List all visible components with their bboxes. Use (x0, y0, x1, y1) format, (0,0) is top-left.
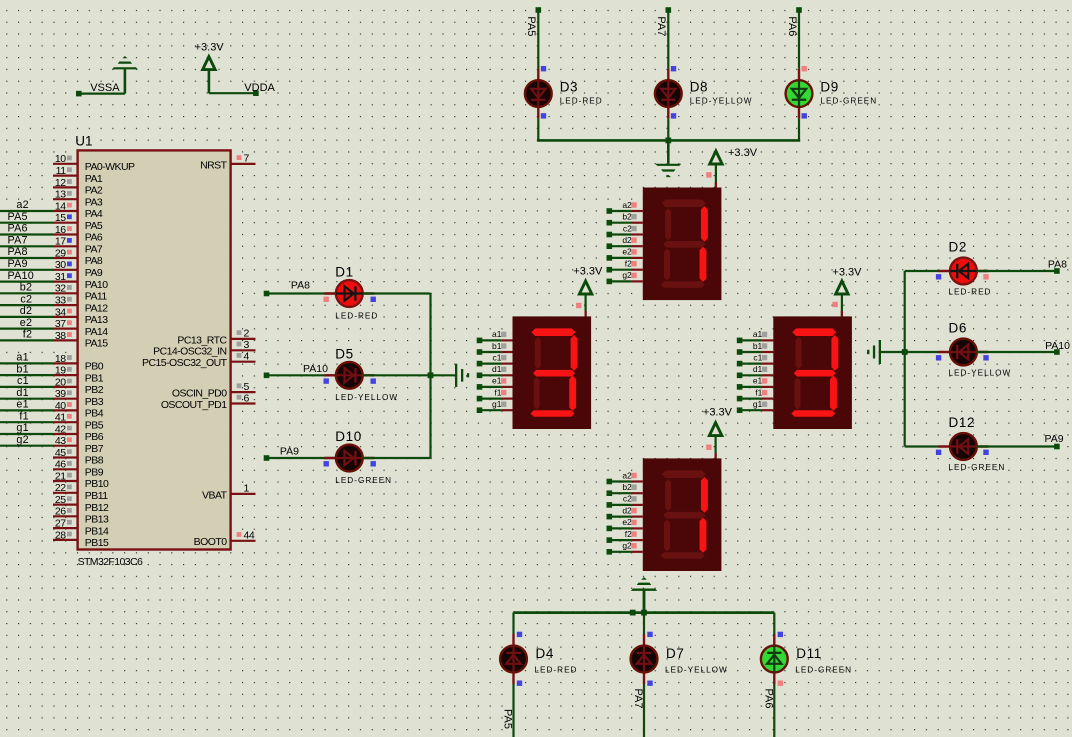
U1 pin 2 (PC13_RTC) (177, 328, 255, 347)
svg-text:D10: D10 (335, 429, 362, 444)
svg-text:26: 26 (55, 506, 66, 518)
ground symbol (right LED column) (867, 340, 881, 364)
svg-text:PB10: PB10 (85, 478, 109, 490)
U1 pin 34 (PA13) (53, 306, 108, 326)
svg-text:18: 18 (55, 353, 66, 365)
wire net PA10 to D5 (267, 363, 337, 375)
7-seg pin d2 wire and terminal (607, 235, 643, 249)
svg-text:45: 45 (55, 447, 66, 459)
svg-text:D5: D5 (335, 346, 353, 361)
svg-text:e1: e1 (753, 376, 763, 386)
svg-text:PC13_RTC: PC13_RTC (177, 334, 227, 346)
ground symbol (bottom display) (631, 577, 657, 612)
svg-text:PA4: PA4 (85, 208, 103, 220)
wire net a2 to U1 pin 14 (0, 199, 53, 211)
U1 pin 37 (PA14) (53, 318, 108, 338)
U1 pin 27 (PB14) (53, 518, 109, 538)
svg-text:LED-GREEN: LED-GREEN (335, 476, 392, 485)
wire net f2 to U1 pin 38 (0, 329, 53, 341)
7-seg pin a1 wire and terminal (477, 329, 513, 343)
svg-text:PA10: PA10 (8, 270, 34, 282)
7-seg pin f1 wire and terminal (737, 387, 774, 401)
svg-text:LED-YELLOW: LED-YELLOW (949, 368, 1012, 377)
svg-text:13: 13 (55, 189, 66, 201)
svg-text:PA5: PA5 (8, 211, 28, 223)
7-seg pin f1 wire and terminal (477, 387, 513, 401)
svg-text:39: 39 (55, 388, 66, 400)
svg-text:PA7: PA7 (655, 16, 667, 36)
svg-text:17: 17 (55, 236, 66, 248)
svg-text:PA2: PA2 (85, 185, 103, 197)
7-seg pin a2 wire and terminal (607, 470, 643, 484)
svg-text:a2: a2 (622, 470, 632, 480)
wire D12 anode to terminal PA9 (977, 433, 1064, 447)
IC U1 STM32F103C6 (75, 133, 230, 567)
svg-text:40: 40 (55, 400, 66, 412)
wire D6 anode to terminal PA10 (977, 340, 1071, 352)
U1 pin 46 (PB9) (53, 459, 104, 479)
svg-text:D4: D4 (536, 646, 554, 661)
svg-text:25: 25 (55, 494, 66, 506)
7-seg pin a1 wire and terminal (737, 329, 774, 343)
svg-text:PA0-WKUP: PA0-WKUP (85, 161, 135, 173)
svg-text:32: 32 (55, 283, 66, 295)
wire D8 cathode to bus (667, 119, 669, 141)
svg-text:PB14: PB14 (85, 525, 109, 537)
svg-text:NRST: NRST (200, 159, 228, 171)
wire net e1 to U1 pin 40 (0, 399, 53, 411)
wire VSSA terminal to ground (79, 92, 125, 94)
U1 pin 21 (PB10) (53, 470, 109, 490)
svg-text:PA9: PA9 (280, 446, 299, 458)
U1 pin 22 (PB11) (53, 482, 108, 502)
LED D1 LED-RED (lit) (324, 265, 379, 321)
svg-text:PA8: PA8 (85, 255, 103, 267)
svg-text:10: 10 (55, 153, 66, 165)
U1 pin 6 (OSCOUT_PD1) (161, 392, 256, 411)
U1 pin 30 (PA9) (53, 259, 103, 279)
LED D9 LED-GREEN (786, 66, 878, 119)
U1 pin 38 (PA15) (53, 330, 108, 350)
svg-text:37: 37 (55, 318, 66, 330)
U1 pin 13 (PA3) (53, 189, 103, 209)
svg-text:LED-RED: LED-RED (535, 665, 578, 674)
7-seg pin g1 wire and terminal (477, 399, 513, 413)
svg-text:g2: g2 (622, 541, 632, 551)
svg-text:c2: c2 (20, 293, 32, 305)
svg-text:+3.3V: +3.3V (573, 266, 603, 278)
svg-text:PA1: PA1 (85, 173, 103, 185)
LED D12 LED-GREEN (936, 415, 1005, 472)
svg-text:PA10: PA10 (85, 279, 108, 291)
U1 pin 33 (PA12) (53, 295, 108, 315)
svg-text:g2: g2 (622, 270, 632, 280)
svg-text:44: 44 (244, 530, 255, 542)
7-seg pin b1 wire and terminal (477, 341, 513, 355)
LED D11 LED-GREEN (761, 632, 852, 686)
svg-text:b2: b2 (622, 482, 632, 492)
wire D10 cathode to bus (363, 457, 431, 459)
U1 pin 12 (PA2) (53, 177, 103, 197)
svg-text:c2: c2 (623, 223, 632, 233)
terminal VDDA (244, 82, 275, 96)
svg-text:PB0: PB0 (85, 361, 104, 373)
U1 pin 5 (OSCIN_PD0) (172, 381, 256, 400)
svg-text:OSCOUT_PD1: OSCOUT_PD1 (161, 399, 227, 411)
wire bus to D12 (905, 445, 939, 447)
wire net e2 to U1 pin 37 (0, 317, 53, 329)
7-seg pin a2 wire and terminal (607, 200, 643, 214)
svg-text:7: 7 (244, 153, 250, 165)
7-seg pin b2 wire and terminal (607, 212, 643, 226)
7-seg display (mid-left, digit 3) (513, 316, 592, 429)
wire D5 cathode to junction (363, 374, 431, 376)
U1 pin 26 (PB13) (53, 506, 109, 526)
U1 pin 7 (NRST) (200, 153, 255, 172)
svg-text:22: 22 (55, 482, 66, 494)
svg-text:VSSA: VSSA (90, 82, 120, 94)
svg-text:15: 15 (55, 212, 66, 224)
svg-text:PB5: PB5 (85, 419, 104, 431)
svg-text:PA14: PA14 (85, 326, 108, 338)
wire net PA6 to D9 (786, 10, 799, 69)
svg-text:PB8: PB8 (85, 455, 104, 467)
7-seg pin f2 wire and terminal (607, 529, 643, 543)
svg-text:34: 34 (55, 306, 66, 318)
svg-text:b1: b1 (753, 341, 763, 351)
svg-text:+3.3V: +3.3V (832, 266, 862, 278)
ground symbol VSSA net (112, 56, 138, 94)
wire D7 to net PA7 (bottom edge) (632, 684, 644, 737)
svg-text:d1: d1 (492, 364, 502, 374)
svg-text:31: 31 (55, 271, 66, 283)
svg-text:LED-YELLOW: LED-YELLOW (690, 96, 753, 105)
7-seg display (top, digit 1) (643, 188, 722, 301)
wire bus to D2 (905, 270, 939, 272)
svg-text:e2: e2 (622, 517, 632, 527)
svg-text:LED-RED: LED-RED (949, 287, 992, 296)
svg-text:LED-GREEN: LED-GREEN (820, 96, 877, 105)
svg-text:PA9: PA9 (1045, 433, 1064, 445)
7-seg pin c2 wire and terminal (607, 223, 643, 237)
wire net PA9 to D10 (267, 446, 337, 458)
svg-text:PA6: PA6 (786, 16, 798, 36)
junction bottom bus at ground (641, 610, 647, 616)
wire net a1 to U1 pin 18 (0, 352, 53, 364)
7-seg pin g1 wire and terminal (737, 399, 774, 413)
svg-text:LED-GREEN: LED-GREEN (949, 463, 1006, 472)
wire net PA7 to U1 pin 17 (0, 235, 53, 247)
svg-text:2: 2 (244, 328, 250, 340)
7-seg display (mid-right, digit 3) (773, 316, 852, 429)
svg-text:PB1: PB1 (85, 372, 104, 384)
svg-text:c1: c1 (493, 352, 502, 362)
U1 pin 31 (PA10) (53, 271, 108, 291)
svg-text:e1: e1 (492, 376, 502, 386)
wire +3.3V to top display common (706, 164, 716, 188)
svg-text:g1: g1 (753, 399, 763, 409)
terminal PA5 (top) (536, 7, 542, 13)
U1 pin 3 (PC14-OSC32_IN) (153, 339, 255, 358)
svg-text:D2: D2 (949, 240, 967, 255)
power symbol +3.3V VDDA (195, 41, 225, 93)
wire net c2 to U1 pin 33 (0, 293, 53, 305)
svg-text:D11: D11 (796, 646, 822, 661)
U1 pin 1 (VBAT) (202, 483, 255, 502)
U1 pin 45 (PB8) (53, 447, 104, 467)
svg-text:a2: a2 (16, 199, 28, 211)
svg-text:VDDA: VDDA (244, 82, 275, 94)
LED D10 LED-GREEN (off) (324, 429, 393, 485)
7-seg pin g2 wire and terminal (607, 270, 643, 284)
svg-text:OSCIN_PD0: OSCIN_PD0 (172, 388, 227, 400)
svg-text:1: 1 (244, 483, 250, 495)
svg-text:PA8: PA8 (8, 246, 28, 258)
svg-text:6: 6 (244, 392, 250, 404)
U1 pin 14 (PA4) (53, 200, 103, 220)
svg-text:D6: D6 (949, 321, 967, 336)
LED D4 LED-RED (500, 632, 577, 686)
wire net PA9 to U1 pin 30 (0, 258, 53, 270)
wire D3 cathode to bus (537, 119, 539, 141)
cathode bus (top LED row) (537, 139, 800, 142)
wire +3.3V to mid-left display common (576, 294, 586, 316)
wire net d2 to U1 pin 34 (0, 305, 53, 317)
svg-text:41: 41 (55, 412, 66, 424)
svg-text:b1: b1 (492, 341, 502, 351)
junction left LED bus (428, 372, 434, 378)
svg-text:b1: b1 (16, 363, 28, 375)
svg-text:g2: g2 (16, 434, 28, 446)
svg-text:STM32F103C6: STM32F103C6 (78, 556, 143, 568)
svg-text:D12: D12 (949, 415, 976, 430)
ground symbol (bottom LED row) (631, 577, 657, 612)
wire net PA10 to U1 pin 31 (0, 270, 53, 282)
svg-text:e2: e2 (20, 317, 32, 329)
U1 pin 42 (PB6) (53, 423, 104, 443)
svg-text:PB4: PB4 (85, 408, 104, 420)
7-seg pin e2 wire and terminal (607, 247, 643, 261)
svg-text:b2: b2 (622, 212, 632, 222)
7-seg pin e1 wire and terminal (477, 376, 513, 390)
svg-text:PA7: PA7 (632, 689, 644, 709)
U1 pin 18 (PB0) (53, 353, 104, 373)
U1 pin 11 (PA1) (53, 165, 103, 185)
svg-text:PC15-OSC32_OUT: PC15-OSC32_OUT (142, 357, 228, 369)
junction top LED bus (665, 138, 671, 144)
wire ground to junction (right) (881, 351, 905, 353)
svg-text:LED-RED: LED-RED (335, 311, 378, 320)
svg-text:21: 21 (55, 470, 66, 482)
terminal PA8 (D1 anode) (264, 291, 270, 297)
svg-text:D8: D8 (690, 79, 708, 94)
wire net g2 to U1 pin 43 (0, 434, 53, 446)
U1 pin 15 (PA5) (53, 212, 103, 232)
svg-text:PA15: PA15 (85, 338, 108, 350)
wire net PA5 to D3 (525, 10, 538, 69)
svg-text:PA12: PA12 (85, 302, 108, 314)
svg-text:PB15: PB15 (85, 537, 109, 549)
U1 pin 28 (PB15) (53, 529, 109, 549)
U1 pin 17 (PA7) (53, 236, 103, 256)
svg-text:d2: d2 (622, 505, 632, 515)
svg-text:PB11: PB11 (85, 490, 108, 502)
svg-text:5: 5 (244, 381, 250, 393)
svg-text:PA6: PA6 (763, 689, 775, 709)
svg-text:PC14-OSC32_IN: PC14-OSC32_IN (153, 346, 226, 358)
7-seg pin e2 wire and terminal (607, 517, 643, 531)
7-seg pin d1 wire and terminal (477, 364, 513, 378)
7-seg pin b2 wire and terminal (607, 482, 643, 496)
power symbol +3.3V (top display) (710, 147, 758, 164)
svg-text:20: 20 (55, 376, 66, 388)
wire net PA5 to U1 pin 15 (0, 211, 53, 223)
LED D7 LED-YELLOW (631, 632, 728, 686)
wire D1 cathode to bus (363, 292, 431, 294)
svg-text:e2: e2 (622, 247, 632, 257)
terminal PA7 (top) (666, 7, 672, 13)
7-seg pin c1 wire and terminal (477, 352, 513, 366)
wire net PA8 to D1 (267, 279, 337, 293)
svg-text:12: 12 (55, 177, 66, 189)
svg-text:PA5: PA5 (525, 16, 537, 36)
svg-text:LED-GREEN: LED-GREEN (795, 665, 852, 674)
svg-text:D1: D1 (335, 265, 353, 280)
svg-text:D7: D7 (666, 646, 684, 661)
LED D3 LED-RED (525, 66, 603, 119)
7-seg display (bottom, digit 1) (643, 458, 722, 571)
terminal PA10 (D5 anode) (264, 373, 270, 379)
svg-text:U1: U1 (75, 133, 92, 148)
wire net f1 to U1 pin 41 (0, 410, 53, 422)
wire VDDA terminal to power (209, 92, 256, 94)
wire bus to D4 (512, 613, 514, 634)
svg-text:PA3: PA3 (85, 196, 103, 208)
svg-text:+3.3V: +3.3V (728, 147, 758, 159)
7-seg pin b1 wire and terminal (737, 341, 774, 355)
wire net g1 to U1 pin 42 (0, 422, 53, 434)
wire bus to D11 (773, 613, 775, 634)
svg-text:PA6: PA6 (8, 223, 28, 235)
7-seg pin f2 wire and terminal (607, 259, 643, 273)
svg-text:+3.3V: +3.3V (195, 41, 225, 53)
7-seg pin e1 wire and terminal (737, 376, 774, 390)
svg-text:c1: c1 (753, 352, 762, 362)
svg-text:PA8: PA8 (291, 279, 310, 291)
wire D2 anode to terminal PA8 (977, 258, 1068, 271)
svg-text:f1: f1 (19, 410, 28, 422)
svg-text:PB13: PB13 (85, 514, 109, 526)
wire net PA8 to U1 pin 29 (0, 246, 53, 258)
ground symbol (top LED row) (655, 140, 681, 177)
wire D9 cathode to bus (798, 119, 800, 141)
svg-text:c2: c2 (623, 494, 632, 504)
LED D6 LED-YELLOW (936, 321, 1011, 378)
svg-text:19: 19 (55, 365, 66, 377)
svg-text:42: 42 (55, 423, 66, 435)
wire net b2 to U1 pin 32 (0, 282, 53, 294)
junction bottom bus (stub) (630, 610, 636, 616)
terminal PA9 (right) (1054, 444, 1060, 450)
svg-text:LED-YELLOW: LED-YELLOW (335, 393, 398, 402)
svg-text:BOOT0: BOOT0 (194, 536, 228, 548)
svg-text:f1: f1 (494, 387, 501, 397)
U1 pin 39 (PB3) (53, 388, 104, 408)
svg-text:PB6: PB6 (85, 431, 104, 443)
svg-text:30: 30 (55, 259, 66, 271)
svg-text:PA5: PA5 (85, 220, 103, 232)
svg-text:c1: c1 (17, 375, 29, 387)
svg-text:PA5: PA5 (502, 709, 514, 729)
svg-text:a1: a1 (16, 352, 28, 364)
svg-text:a1: a1 (492, 329, 502, 339)
svg-text:f2: f2 (23, 329, 32, 341)
terminal PA9 (D10 anode) (264, 455, 270, 461)
svg-text:14: 14 (55, 200, 66, 212)
wire +3.3V to bottom display common (706, 436, 715, 459)
7-seg pin d1 wire and terminal (737, 364, 774, 378)
svg-text:PB3: PB3 (85, 396, 104, 408)
svg-text:d2: d2 (20, 305, 32, 317)
svg-text:29: 29 (55, 247, 66, 259)
wire junction to ground (left) (431, 374, 456, 376)
svg-text:46: 46 (55, 459, 66, 471)
svg-text:g1: g1 (492, 399, 502, 409)
wire D4 to net PA5 (bottom edge) (502, 684, 514, 737)
junction right LED bus (902, 349, 908, 355)
U1 pin 16 (PA6) (53, 224, 103, 244)
svg-text:PB12: PB12 (85, 502, 109, 514)
cathode bus (right LED column) (904, 271, 906, 447)
svg-text:38: 38 (55, 330, 66, 342)
svg-text:b2: b2 (20, 282, 32, 294)
7-seg pin c1 wire and terminal (737, 352, 774, 366)
svg-text:D3: D3 (560, 79, 578, 94)
svg-text:PB2: PB2 (85, 384, 104, 396)
terminal PA10 (right) (1054, 349, 1060, 355)
U1 pin 40 (PB4) (53, 400, 104, 420)
svg-text:PA7: PA7 (8, 235, 28, 247)
wire +3.3V to mid-right display common (832, 294, 842, 316)
wire D11 to net PA6 (bottom edge) (763, 684, 775, 737)
U1 pin 20 (PB2) (53, 376, 104, 396)
svg-text:LED-YELLOW: LED-YELLOW (665, 665, 728, 674)
power symbol +3.3V (mid-right display) (832, 266, 862, 294)
7-seg pin d2 wire and terminal (607, 505, 643, 519)
7-seg pin g2 wire and terminal (607, 541, 643, 555)
U1 pin 43 (PB7) (53, 435, 104, 455)
U1 pin 41 (PB5) (53, 412, 104, 432)
svg-text:e1: e1 (16, 399, 28, 411)
U1 pin 29 (PA8) (53, 247, 103, 267)
terminal VSSA (76, 82, 120, 96)
svg-text:PA10: PA10 (303, 363, 328, 375)
svg-text:f2: f2 (625, 259, 632, 269)
svg-text:28: 28 (55, 529, 66, 541)
U1 pin 25 (PB12) (53, 494, 109, 514)
svg-text:PA7: PA7 (85, 244, 103, 256)
wire net PA7 to D8 (655, 10, 668, 69)
svg-text:PA11: PA11 (85, 291, 108, 303)
svg-text:a2: a2 (622, 200, 632, 210)
svg-text:43: 43 (55, 435, 66, 447)
ground symbol (left LED column) (455, 364, 469, 387)
svg-text:a1: a1 (753, 329, 763, 339)
svg-text:16: 16 (55, 224, 66, 236)
wire net PA6 to U1 pin 16 (0, 223, 53, 235)
terminal PA6 (top) (796, 7, 802, 13)
svg-text:11: 11 (56, 165, 67, 177)
